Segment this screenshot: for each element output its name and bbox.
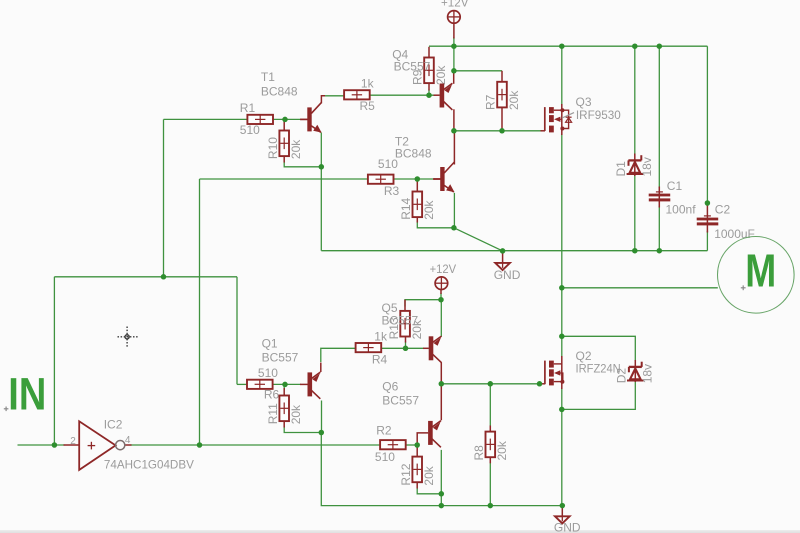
node rail/C1	[657, 43, 663, 49]
wire +12V1 pin red	[453, 23, 455, 39]
wire R8 bottom stub	[489, 463, 491, 506]
wire +12V2 node to R13	[405, 300, 441, 307]
svg-text:R6: R6	[264, 387, 280, 401]
wire R1 to T1 base	[273, 118, 301, 120]
wire Q1 emitter pin	[320, 363, 322, 373]
svg-text:20k: 20k	[289, 139, 303, 159]
svg-text:M: M	[745, 245, 776, 297]
wire R10 top pin	[283, 119, 285, 130]
wire Q4 emitter pin	[453, 71, 455, 84]
node R7 bottom	[499, 128, 505, 134]
wire T1 emitter down	[320, 133, 322, 167]
svg-text:+12V: +12V	[430, 262, 457, 276]
svg-text:R8: R8	[472, 445, 486, 461]
wire Q4 base pin	[434, 94, 440, 96]
svg-text:R2: R2	[376, 424, 392, 438]
wire Q3 channel column red	[561, 104, 563, 135]
wire R12 bottom pin	[416, 483, 418, 489]
wire to R3	[200, 178, 369, 180]
wire R10 bottom link	[284, 162, 321, 167]
svg-text:1k: 1k	[361, 77, 375, 91]
wire R11 top stub	[283, 384, 285, 390]
wire D1 column lower	[634, 176, 636, 251]
node label IN	[4, 368, 47, 419]
wire C1 column upper	[658, 46, 660, 188]
svg-text:R10: R10	[266, 137, 280, 159]
wire C2 column lower	[706, 231, 708, 251]
svg-text:Q6: Q6	[382, 379, 398, 393]
resistor R5	[344, 77, 375, 113]
svg-text:R12: R12	[399, 463, 413, 485]
node R9 bottom	[426, 92, 432, 98]
wire R14 bottom pin	[416, 217, 418, 223]
node C1/gnd rail	[657, 248, 663, 254]
wire R3 to T2 base	[393, 178, 435, 180]
wire T2 collector pin	[453, 131, 455, 165]
svg-text:R7: R7	[484, 94, 498, 110]
svg-text:20k: 20k	[507, 90, 521, 110]
wire x321 down to bottom gnd rail	[321, 433, 562, 506]
wire Q6 emitter pin	[440, 384, 442, 421]
wire T2 emitter down	[453, 193, 455, 228]
svg-text:BC557: BC557	[382, 314, 419, 328]
wire R12 bottom link	[417, 488, 441, 494]
wire +12V pin drop to rail	[453, 37, 455, 71]
wire Q5 emitter up	[440, 300, 442, 337]
node D1/gnd rail	[632, 248, 638, 254]
ground GND1	[494, 262, 521, 282]
wire D2 body column red	[634, 360, 636, 382]
node Q4 collector	[451, 128, 457, 134]
svg-text:1000uF: 1000uF	[714, 227, 755, 241]
wire R13 bottom pin	[405, 336, 407, 342]
wire motor node column x561 upper	[561, 46, 563, 105]
node +12V rail at pin	[451, 43, 457, 49]
svg-text:D1: D1	[614, 161, 628, 177]
node R3/R14/T2 base	[415, 176, 421, 182]
wire C1 column lower	[658, 206, 660, 251]
transistor T2	[395, 135, 455, 193]
wire D2 bottom link	[562, 381, 636, 409]
svg-text:R1: R1	[240, 101, 256, 115]
resistor R12	[399, 457, 436, 486]
node IN junction	[52, 442, 58, 448]
node R2/R12/Q6 base	[414, 442, 420, 448]
wire Q5 base pin stub	[423, 347, 429, 349]
node R11 bottom	[319, 430, 325, 436]
resistor R14	[399, 192, 436, 220]
wire R4 to Q5 base	[381, 347, 424, 349]
svg-text:510: 510	[258, 366, 278, 380]
svg-text:IC2: IC2	[104, 418, 123, 432]
ground GND2	[554, 516, 581, 533]
wire +12V2 pin drop	[440, 293, 442, 300]
wire Q3 gate stub	[541, 130, 546, 132]
node D2 bottom tap	[559, 407, 565, 413]
wire inverter out column x198	[199, 179, 201, 445]
+12V supply symbol 2	[430, 262, 457, 290]
resistor R2	[375, 424, 406, 464]
svg-text:BC557: BC557	[262, 350, 299, 364]
wire Q4 collector node to Q3 gate	[454, 130, 542, 132]
transistor T1	[261, 70, 322, 133]
transistor Q5	[382, 301, 442, 363]
svg-text:R14: R14	[399, 197, 413, 219]
svg-text:20k: 20k	[289, 404, 303, 424]
wire D2 top link	[562, 336, 636, 361]
node Q2 gate	[537, 381, 543, 387]
capacitor C1 100nf	[649, 179, 696, 216]
svg-text:+12V: +12V	[441, 0, 469, 10]
wire left feedback column x163	[163, 119, 165, 276]
svg-text:20k: 20k	[434, 65, 448, 85]
wire R5 to Q4 base	[370, 94, 435, 96]
svg-text:R4: R4	[372, 352, 388, 366]
transistor Q1	[262, 337, 321, 399]
svg-text:BC557: BC557	[382, 394, 419, 408]
node R1/R10/T1 base	[282, 117, 288, 123]
node GND1 tap	[500, 248, 506, 254]
node motor tap	[559, 285, 565, 291]
wire Q6 base L-link	[417, 433, 428, 445]
svg-text:510: 510	[375, 450, 395, 464]
node Q5 collector	[439, 381, 445, 387]
wire left loop horizontal y277	[54, 276, 237, 278]
svg-text:IN: IN	[8, 368, 46, 419]
wire Q1 column x237	[236, 277, 238, 385]
wire Q6 collector down	[440, 450, 442, 494]
wire R10 bottom pin	[283, 156, 285, 163]
svg-text:Q1: Q1	[262, 337, 278, 351]
node Q6 collector/R12	[439, 491, 445, 497]
svg-text:4: 4	[125, 435, 131, 446]
transistor Q4	[392, 47, 452, 110]
wire D1 body column red	[634, 154, 636, 177]
svg-text:20k: 20k	[495, 440, 509, 460]
wire Q1 collector down	[321, 401, 323, 433]
node R6/R11/Q1 base	[282, 382, 288, 388]
wire left loop vertical x54	[53, 277, 55, 445]
wire Q3 drain down to motor tap	[561, 134, 563, 357]
wire R8 bottom pin	[489, 458, 491, 464]
wire Q4 collector pin	[453, 109, 455, 131]
wire R9 wire stub	[428, 90, 430, 96]
node inverter output column	[197, 442, 203, 448]
wire IC2 output pin	[125, 444, 132, 446]
wire motor feed	[562, 287, 718, 289]
wire R6 to Q1 base	[272, 383, 301, 385]
svg-text:GND: GND	[494, 268, 521, 282]
capacitor C2 1000uF	[697, 202, 755, 241]
wire R8 top stub	[489, 384, 491, 426]
wire R11 bottom pin	[283, 421, 285, 427]
wire Q5 node to Q2 gate	[441, 383, 541, 385]
svg-text:18v: 18v	[640, 157, 654, 176]
svg-text:2: 2	[70, 436, 76, 447]
wire Q2 channel column red	[561, 356, 563, 389]
wire Q6 collector node to gnd rail	[440, 494, 442, 506]
resistor R10	[266, 131, 303, 160]
wire +12V2 pin red	[440, 290, 442, 294]
wire inverter out to R2	[131, 444, 381, 446]
wire Q1 base pin stub	[300, 383, 308, 385]
motor M1	[718, 236, 795, 313]
node rail/D1	[632, 43, 638, 49]
wire C2 pin red	[706, 204, 708, 233]
resistor R3	[368, 157, 400, 198]
node left loop	[161, 274, 167, 280]
wire IC2 input pin	[64, 444, 79, 446]
wire R11 top pin	[283, 388, 285, 395]
svg-text:GND: GND	[554, 521, 581, 533]
svg-text:100nf: 100nf	[666, 202, 697, 216]
resistor R1	[240, 101, 273, 137]
node R8 top	[488, 381, 494, 387]
wire R13 bottom stub	[405, 342, 407, 349]
svg-text:R5: R5	[360, 99, 376, 113]
REDPINS	[64, 23, 708, 516]
wire T2 emitter diagonal to GND	[454, 228, 503, 251]
diode D2 zener 18v	[614, 362, 654, 384]
op-amp inverter IC2 74AHC1G04DBV	[70, 418, 194, 472]
wire rail to R7 top node	[454, 70, 502, 72]
wire R14 top pin	[416, 179, 418, 192]
svg-text:R3: R3	[384, 184, 400, 198]
wire D1 column upper	[634, 46, 636, 154]
wire R13 top pin	[404, 300, 406, 312]
svg-text:74AHC1G04DBV: 74AHC1G04DBV	[104, 457, 194, 471]
svg-text:IRF9530: IRF9530	[576, 108, 621, 122]
resistor R6	[247, 366, 280, 401]
resistor R13	[387, 311, 424, 339]
wire R14 bottom link	[417, 222, 454, 228]
wire Q2 gate stub	[541, 383, 546, 385]
svg-text:18v: 18v	[640, 364, 654, 383]
wire GND rail middle	[321, 250, 707, 252]
svg-text:BC557: BC557	[394, 59, 431, 73]
node rail/Q3 column	[559, 43, 565, 49]
wire +12V rail top	[429, 45, 707, 47]
node GND2 tap	[560, 503, 566, 509]
resistor R9	[411, 58, 448, 85]
wire R11 bottom link	[284, 427, 321, 433]
node D2 top tap	[559, 334, 565, 340]
mosfet Q3 IRF9530	[545, 95, 621, 132]
wire R12 top pin	[416, 445, 418, 456]
resistor R7	[484, 82, 521, 110]
mosfet Q2 IRFZ24N	[545, 349, 621, 385]
transistor Q6	[382, 379, 441, 447]
resistor R4	[356, 329, 388, 366]
wire R7 bottom pin	[501, 107, 503, 131]
node R13 bottom	[403, 346, 409, 352]
node gnd rail/R8	[488, 503, 494, 509]
wire C1 pin red	[658, 187, 660, 208]
node +12V2	[438, 297, 444, 303]
node R7 top	[451, 68, 457, 74]
svg-text:R11: R11	[266, 403, 280, 424]
wire T1 collector pin corner	[321, 96, 325, 103]
wire C2 column upper	[706, 46, 708, 206]
wire x237 to R6	[237, 383, 246, 385]
wire GND2 pin	[561, 506, 563, 517]
wire R7 top pin	[501, 71, 503, 82]
wire R9 bottom pin	[428, 82, 430, 91]
node C2 top	[705, 200, 711, 206]
svg-text:T1: T1	[261, 70, 275, 84]
node gnd rail/Q6	[439, 503, 445, 509]
diode D1 zener 18v	[614, 155, 654, 176]
svg-text:510: 510	[240, 123, 260, 137]
svg-text:BC848: BC848	[395, 147, 432, 161]
wire Q5 collector pin	[440, 362, 442, 383]
wire IN to inverter	[18, 444, 65, 446]
node T1 emitter/R10	[319, 164, 325, 170]
svg-text:BC848: BC848	[261, 84, 298, 98]
wire Q2 source down	[561, 388, 563, 506]
wire R1 input segment	[164, 118, 248, 120]
wire T2 base pin stub	[434, 178, 440, 180]
svg-text:20k: 20k	[422, 465, 436, 485]
wire R9 top pin	[428, 47, 430, 59]
wire R8 top pin	[489, 426, 491, 432]
node T2 emitter/R14	[451, 225, 457, 231]
svg-text:20k: 20k	[422, 199, 436, 219]
wire Q1 emitter riser	[321, 348, 356, 362]
svg-text:C2: C2	[715, 202, 731, 216]
wire GND1 pin	[502, 251, 504, 263]
cursor crosshair	[118, 327, 139, 349]
+12V supply symbol 1	[441, 0, 469, 23]
svg-text:C1: C1	[667, 179, 683, 193]
resistor R8	[472, 432, 509, 461]
svg-text:D2: D2	[614, 368, 628, 384]
wire T1 emitter node down to gnd rail	[320, 167, 322, 251]
resistor R11	[266, 396, 303, 425]
wire T1 collector to R5	[324, 95, 344, 97]
wire R2 to Q6 base node	[406, 444, 417, 446]
